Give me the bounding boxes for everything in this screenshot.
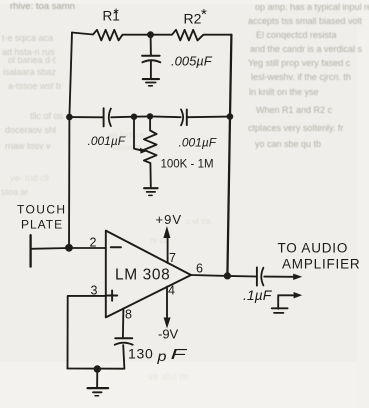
svg-text:yo can sbe qu tb: yo can sbe qu tb [255, 139, 321, 149]
svg-text:p: p [156, 349, 167, 364]
svg-text:3: 3 [91, 284, 98, 298]
svg-text:rhive: toa samn: rhive: toa samn [10, 1, 75, 12]
svg-text:a-tssoe wst b: a-tssoe wst b [8, 81, 61, 91]
svg-text:op amp. has a typical inpul re: op amp. has a typical inpul re [255, 2, 369, 12]
svg-text:ve alst nr: ve alst nr [148, 372, 189, 383]
svg-text:El conqectcd resista: El conqectcd resista [256, 30, 337, 40]
svg-text:PLATE: PLATE [21, 218, 63, 232]
svg-text:stoa ar: stoa ar [1, 187, 29, 197]
svg-text:6: 6 [196, 261, 203, 275]
svg-text:*: * [114, 6, 120, 21]
svg-text:.001µF: .001µF [88, 134, 126, 148]
svg-text:100K - 1M: 100K - 1M [161, 159, 214, 171]
svg-text:130: 130 [128, 346, 153, 362]
svg-text:tllc of os: tllc of os [30, 111, 64, 121]
svg-text:.001µF: .001µF [179, 135, 217, 149]
svg-text:ctplaces very soltenly. fr: ctplaces very soltenly. fr [248, 123, 343, 133]
svg-text:7: 7 [169, 251, 176, 265]
svg-text:8: 8 [125, 307, 132, 321]
svg-text:AMPLIFIER: AMPLIFIER [282, 257, 360, 272]
svg-text:accepts tss small biased volt: accepts tss small biased volt [248, 16, 363, 26]
svg-text:TOUCH: TOUCH [17, 203, 66, 217]
svg-text:rnaw tosv v: rnaw tosv v [5, 141, 51, 151]
svg-text:doceraov shl: doceraov shl [5, 125, 56, 135]
svg-text:LM 308: LM 308 [115, 266, 170, 283]
svg-text:and the candr is a verdical s: and the candr is a verdical s [250, 44, 363, 54]
svg-text:c vl tra: c vl tra [186, 216, 211, 226]
svg-text:-9V: -9V [158, 327, 179, 342]
svg-text:R2: R2 [184, 11, 202, 27]
svg-text:4: 4 [168, 283, 175, 297]
svg-text:ln knilt on the yse: ln knilt on the yse [249, 87, 319, 97]
svg-text:Yeg still prop very fased c: Yeg still prop very fased c [248, 58, 351, 68]
svg-text:isalaara sbaz: isalaara sbaz [3, 67, 57, 77]
svg-text:F: F [171, 347, 188, 363]
svg-text:.005µF: .005µF [171, 54, 213, 69]
svg-text:.1µF: .1µF [243, 287, 273, 303]
svg-text:ve- tnd cfi: ve- tnd cfi [10, 173, 49, 183]
svg-text:*: * [201, 6, 207, 23]
svg-text:+9V: +9V [156, 212, 183, 227]
svg-text:t-e sqica aca: t-e sqica aca [2, 33, 53, 43]
svg-text:lesl-weshv. if the cjrcn. th: lesl-weshv. if the cjrcn. th [251, 72, 351, 82]
svg-text:When R1 and R2 c: When R1 and R2 c [256, 105, 333, 115]
svg-text:TO AUDIO: TO AUDIO [278, 241, 349, 256]
svg-text:2: 2 [90, 236, 97, 250]
svg-text:ol banea d-t: ol banea d-t [8, 55, 56, 65]
